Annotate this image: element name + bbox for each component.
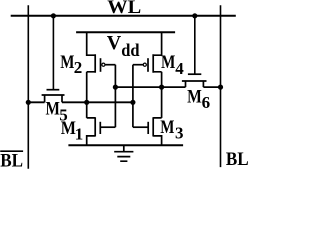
wire M6 drain stub (202, 81, 204, 87)
junction left input / cross line A (113, 85, 118, 90)
transistor M2 gate bubble (102, 63, 105, 66)
wire M4 gate to cross node (133, 64, 143, 66)
wire BL bit line (right) (220, 5, 222, 167)
transistor M2 gate plate (100, 58, 102, 72)
transistor M3 NMOS body (153, 117, 161, 145)
transistor M3 gate plate (147, 122, 149, 134)
junction BLbar / M5 (26, 100, 31, 105)
svg-text:WL: WL (107, 0, 141, 18)
wire ground rail (68, 144, 183, 146)
transistor M4 gate plate (147, 58, 149, 72)
svg-text:2: 2 (74, 58, 83, 77)
wire M3 gate lead (133, 126, 148, 128)
transistor M1 gate plate (99, 122, 101, 134)
svg-text:dd: dd (121, 40, 140, 60)
svg-text:1: 1 (75, 125, 84, 144)
wire M5 gate lead from WL (52, 16, 54, 89)
junction BL / M6 (218, 85, 223, 90)
wire right inverter input line (M4/M3 gates) (132, 65, 134, 128)
transistor M1 NMOS body (87, 117, 96, 145)
svg-text:M: M (161, 52, 175, 73)
wire M5 source stub (44, 95, 46, 102)
ground symbol (114, 145, 133, 161)
wire cross coupling A (left input to node Qbar, to M6) (115, 86, 185, 88)
wire M5 drain stub (61, 95, 63, 102)
wire BLbar bit line (left) (27, 5, 29, 169)
wire node Q vertical (M2 drain to M1 drain) (86, 72, 88, 118)
svg-text:M: M (60, 52, 74, 73)
wire M6 source stub (185, 81, 187, 87)
transistor M5 gate plate (47, 89, 60, 91)
transistor M6 NMOS access (horizontal) channel (182, 80, 207, 82)
svg-text:4: 4 (175, 59, 184, 78)
svg-text:BL: BL (0, 151, 23, 170)
svg-text:3: 3 (175, 124, 184, 143)
wire node Qbar vertical (M4 drain to M3 drain) (161, 72, 163, 118)
wire Vdd rail (76, 31, 175, 33)
svg-text:V: V (107, 32, 122, 54)
svg-text:M: M (160, 117, 174, 138)
wire M1 gate lead (100, 126, 115, 128)
wire WL word line (11, 15, 236, 17)
junction on WL at M5 gate (51, 13, 56, 18)
transistor M4 gate bubble (143, 63, 146, 66)
wire BLbar to M5 left terminal (28, 101, 44, 103)
junction on WL at M6 gate (192, 13, 197, 18)
svg-text:M: M (46, 99, 60, 120)
label BLbar overline (0, 150, 23, 152)
junction node Qbar / cross line A (159, 85, 164, 90)
transistor M4 PMOS body (153, 32, 161, 72)
svg-text:BL: BL (226, 149, 249, 169)
junction cross line B / right input (130, 100, 135, 105)
wire M2 gate to cross node (105, 64, 115, 66)
svg-text:M: M (187, 87, 202, 108)
svg-text:6: 6 (202, 93, 211, 112)
wire M6 right terminal to BL (203, 86, 220, 88)
wire left inverter input line (M2/M1 gates) (114, 65, 116, 128)
transistor M5 NMOS access (horizontal) channel (42, 94, 65, 96)
wire M6 gate lead from WL (194, 16, 196, 74)
junction node Q / cross line B (84, 100, 89, 105)
transistor M2 PMOS body (87, 32, 96, 72)
transistor M6 gate plate (188, 73, 201, 75)
wire cross coupling B (M5 right terminal through node Q to right input) (62, 101, 133, 103)
